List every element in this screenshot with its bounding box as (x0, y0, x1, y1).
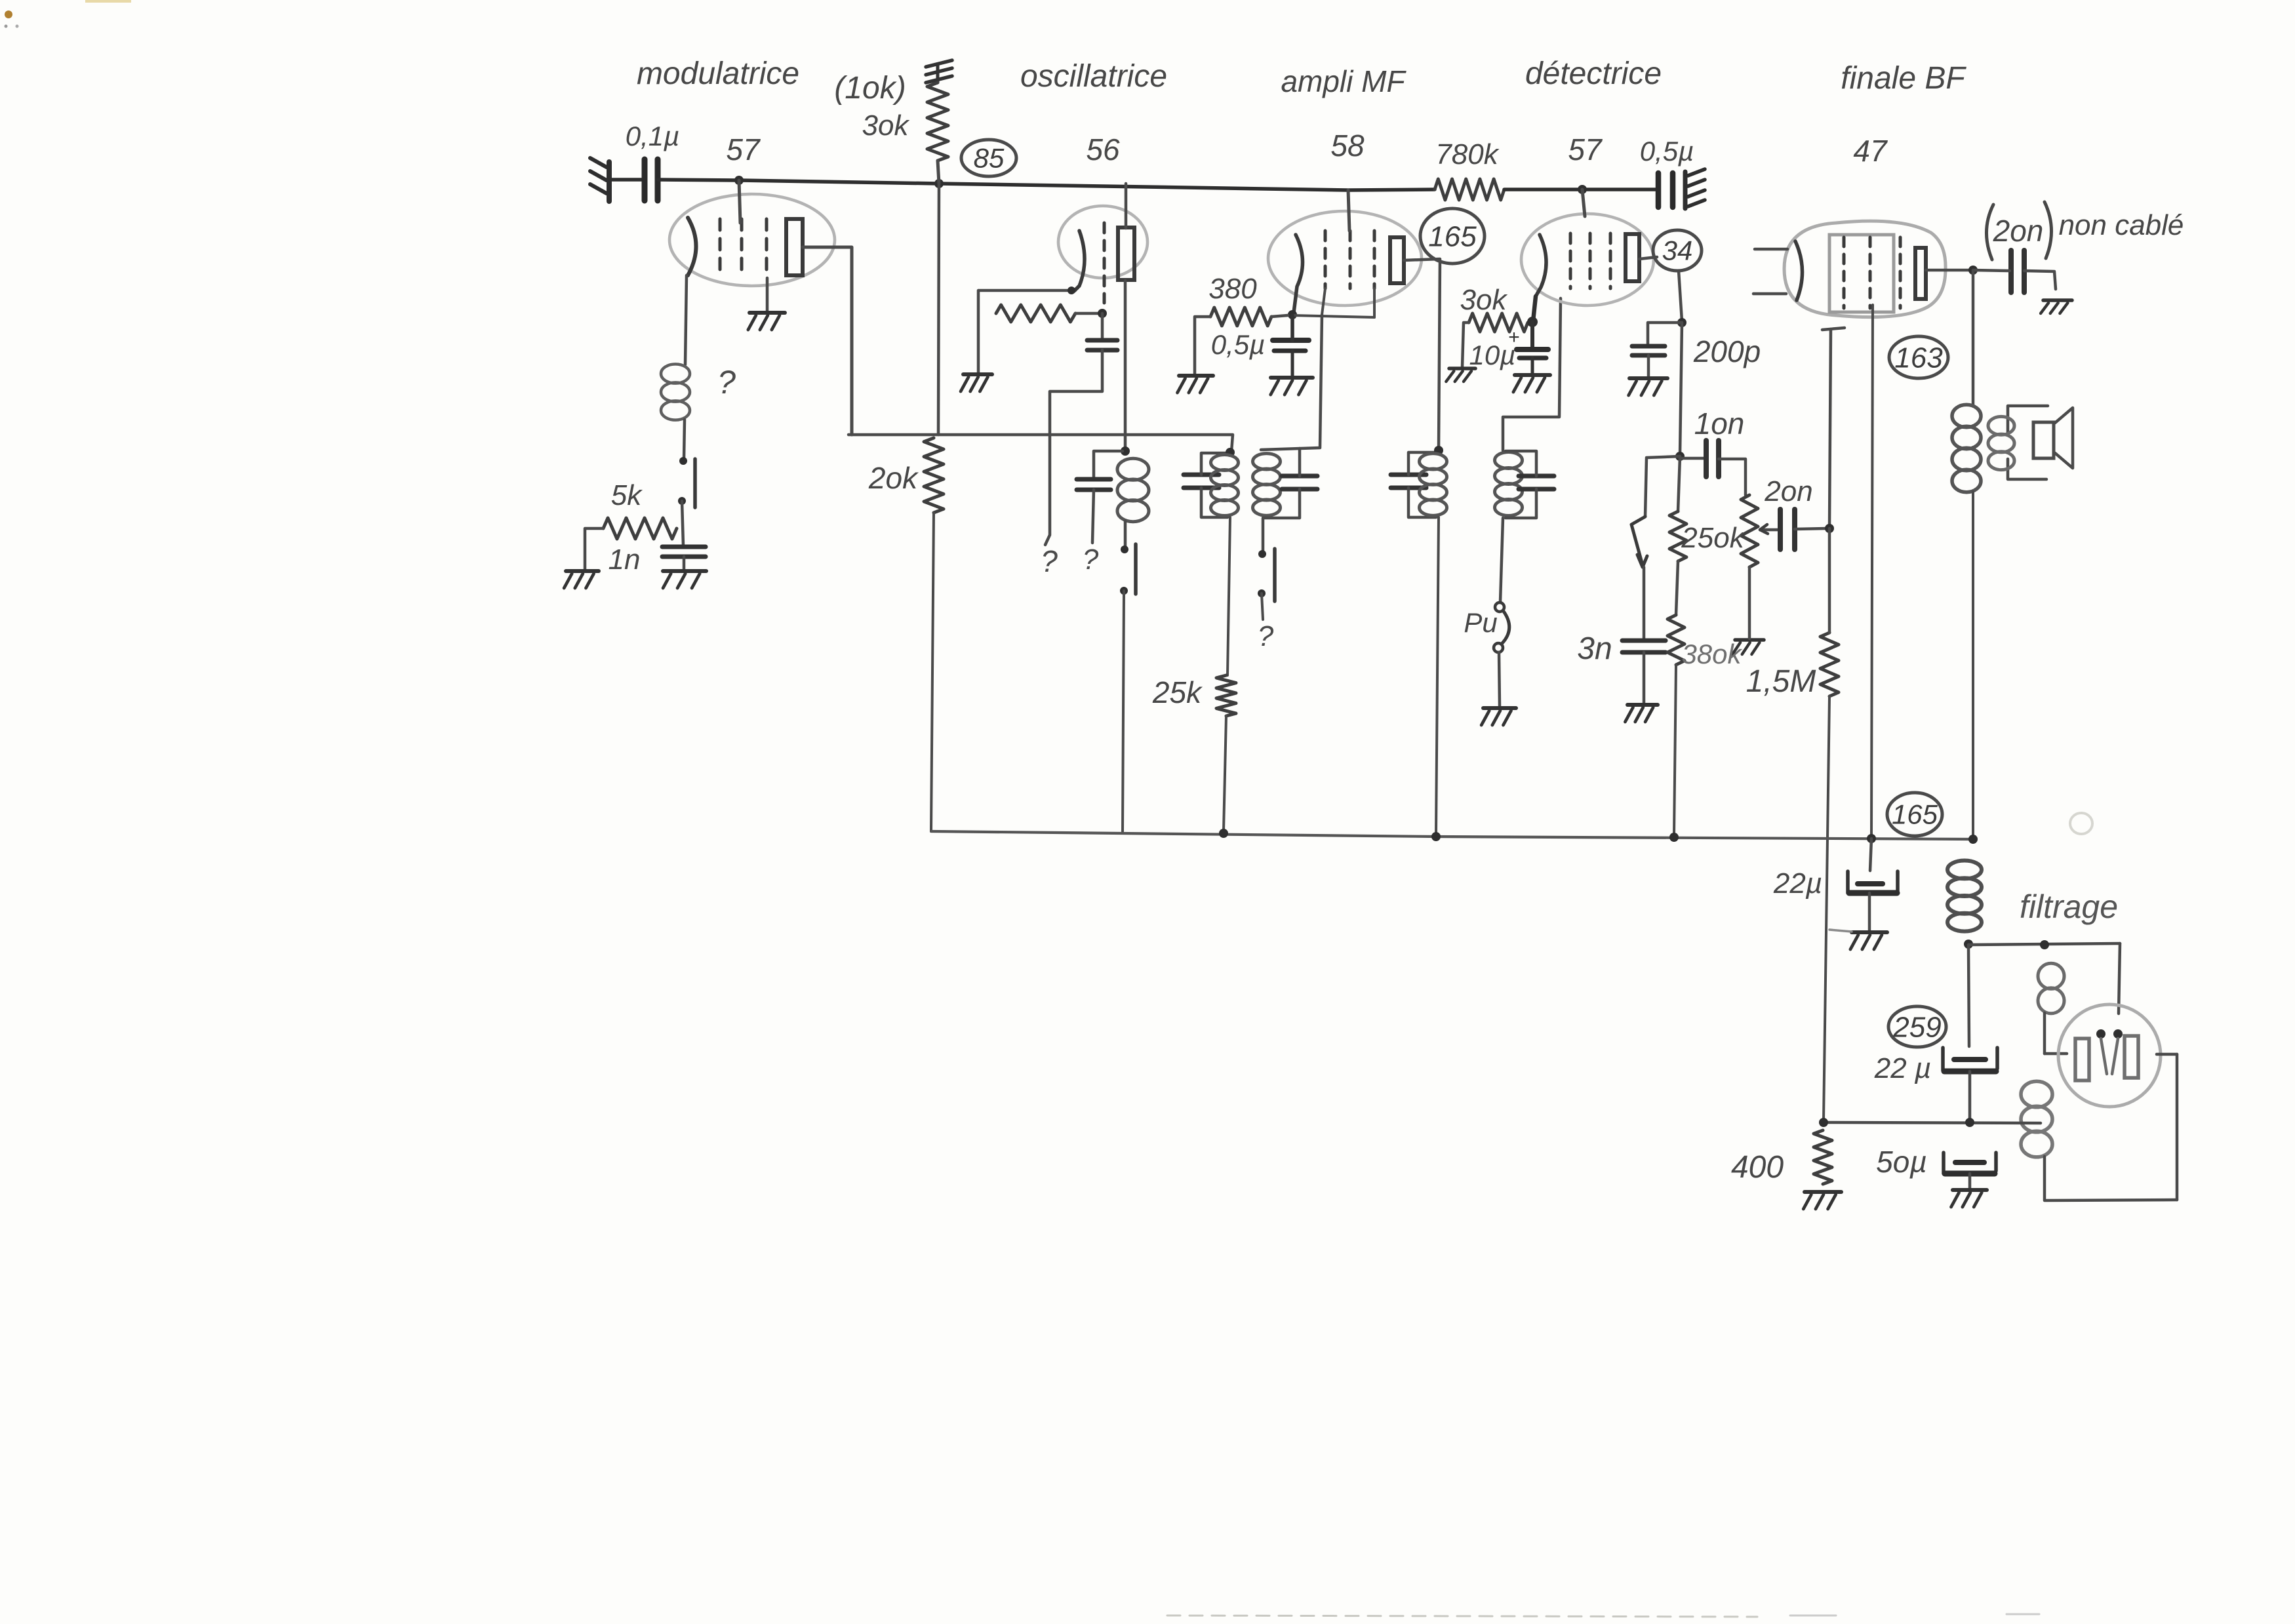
capacitor C_0,5u cath (1273, 340, 1309, 351)
node 30k (934, 179, 944, 188)
ground 50u (1951, 1190, 1987, 1207)
svg-text:25k: 25k (1152, 675, 1203, 709)
wire pot left top (1678, 456, 1680, 511)
label 38ok (1681, 639, 1742, 669)
V4 grid1 (1569, 233, 1572, 288)
wire 50u down (1968, 1174, 1972, 1188)
svg-text:22 µ: 22 µ (1874, 1052, 1932, 1084)
V2 grid (1103, 223, 1106, 303)
svg-text:3ok: 3ok (862, 109, 910, 142)
wire out pri down (1972, 492, 1974, 837)
wire tank cap tail (1092, 490, 1094, 543)
tube V6 rectifier 259 (2058, 1004, 2161, 1107)
node bus mf2 (1431, 832, 1441, 841)
label 47 (1853, 134, 1888, 168)
ground top of 30k (926, 60, 952, 83)
label ampli MF (1281, 64, 1407, 98)
wire mf2 pri down (1436, 517, 1439, 834)
node switch top (679, 457, 687, 465)
wire gridleak jog (1045, 350, 1102, 545)
resistor R_780k (1435, 179, 1504, 200)
capacitor C_mf2 right (1519, 476, 1554, 489)
label 25k (1152, 675, 1203, 709)
wire switch to 3n (1643, 567, 1646, 639)
svg-text:1,5M: 1,5M (1746, 664, 1816, 699)
circled 165 anode (1420, 208, 1485, 264)
label 200p (1693, 334, 1761, 368)
wire rect plate left (2045, 1052, 2067, 1056)
label 20k (868, 461, 919, 495)
wire mf1 sec to switch (1262, 518, 1265, 553)
ground pu (1481, 708, 1516, 725)
speaker cone (2055, 408, 2073, 468)
wire 47grid below bus (1870, 839, 1871, 871)
node 2on (1825, 524, 1834, 533)
wire top line right (1504, 188, 1657, 191)
label ? tank osc (1083, 544, 1099, 576)
label 57 mod (726, 132, 761, 167)
inductor L_ht winding (2021, 1081, 2052, 1157)
wire 200p ground (1647, 355, 1650, 376)
label 10u (1469, 340, 1516, 370)
V5 grid1 (1843, 237, 1846, 308)
V1 grid1 (719, 219, 722, 278)
wire 22u2 down (1968, 1071, 1972, 1121)
V5 filament stubs (1753, 249, 1787, 294)
label 56 (1086, 132, 1120, 167)
ground 1n (663, 571, 706, 588)
svg-text:5k: 5k (611, 479, 643, 511)
tube V3 58 ampli MF (1268, 211, 1422, 306)
label ? mf1 (1258, 620, 1274, 652)
label 25ok (1681, 522, 1745, 554)
svg-text:57: 57 (726, 132, 761, 167)
V6 plate right (2125, 1036, 2138, 1078)
svg-text:(1ok): (1ok) (834, 71, 906, 106)
node bus 47grid (1867, 834, 1876, 843)
svg-text:0,1µ: 0,1µ (626, 121, 680, 151)
svg-text:1n: 1n (609, 544, 641, 576)
inductor L_mf1 sec (1253, 454, 1281, 516)
scan artifact bottom (1167, 1614, 2039, 1617)
wire ht right v (2176, 1054, 2179, 1200)
ground 5k (564, 571, 599, 588)
node rect coil (2040, 940, 2049, 949)
svg-text:oscillatrice: oscillatrice (1020, 59, 1167, 94)
wire rect right v (2119, 943, 2120, 1014)
svg-text:200p: 200p (1693, 334, 1761, 368)
antenna input (590, 158, 609, 201)
svg-text:2on: 2on (1993, 214, 2044, 248)
resistor R_5k (603, 518, 677, 539)
label oscillatrice (1020, 59, 1167, 94)
wire 200k bracket (977, 290, 980, 372)
label 22u 1 (1773, 867, 1822, 900)
ground 0,5u cath (1271, 378, 1313, 395)
V6 filament dots (2096, 1029, 2123, 1039)
svg-text:400: 400 (1731, 1150, 1784, 1185)
wire 380 to node (1271, 315, 1288, 317)
node osc sw top (1121, 545, 1128, 553)
wire bus avc (931, 831, 1973, 839)
V2 cathode (1074, 231, 1085, 291)
switch det arrow (1631, 517, 1647, 567)
wire V1 screen (766, 278, 769, 311)
node 47 anode (1968, 266, 1978, 275)
label 400 (1731, 1150, 1784, 1185)
inductor L_choke filtrage (1947, 861, 1982, 932)
svg-text:2on: 2on (1764, 475, 1812, 507)
wire ht left bottom (2043, 1157, 2046, 1200)
inductor L_mf2 pri (1420, 454, 1447, 516)
capacitor C_grid 56 (1087, 340, 1117, 350)
wire V3 cath cap (1290, 315, 1294, 340)
node bus 38ok (1669, 833, 1679, 842)
resistor R_30k det (1469, 313, 1528, 332)
svg-text:22µ: 22µ (1773, 867, 1822, 900)
svg-text:3n: 3n (1577, 631, 1612, 666)
wire antenna to C1 (610, 178, 644, 182)
node osc sw bottom (1120, 587, 1128, 595)
ground after 0,5u (1685, 169, 1705, 208)
wire 30k det bracket (1462, 323, 1469, 367)
wire tank cap bracket (1094, 451, 1123, 478)
ground 200p (1629, 378, 1667, 395)
wire mf2 lcap top (1408, 452, 1436, 475)
wire rect plate right (2157, 1053, 2177, 1056)
capacitor C_50u (1944, 1153, 1996, 1174)
resistor R_25k (1216, 675, 1236, 716)
wire V2 cathode to 200k (979, 287, 1075, 294)
faint erased circle (2070, 813, 2092, 834)
wire 200p bracket (1648, 323, 1682, 345)
wire 25ok-38ok (1676, 561, 1678, 615)
wire pu to ground (1499, 652, 1500, 706)
svg-text:non cablé: non cablé (2059, 209, 2184, 241)
wire V4 anode out (1639, 257, 1657, 259)
wire 200k to grid node (1075, 312, 1099, 315)
wire 5k left bracket (585, 528, 603, 570)
label 1,5M (1746, 664, 1816, 699)
svg-text:47: 47 (1853, 134, 1888, 168)
label detectrice (1525, 56, 1662, 91)
label 780k (1435, 138, 1499, 170)
label 2on (1764, 475, 1812, 507)
svg-text:25ok: 25ok (1681, 522, 1745, 554)
wire anode node down (1680, 323, 1682, 455)
label 1on (1694, 406, 1745, 441)
capacitor C_22u 1 (1848, 871, 1898, 893)
node mf1 sw bottom (1258, 589, 1266, 597)
speaker bracket (2008, 406, 2048, 479)
label 5k (611, 479, 643, 511)
wire top line (658, 180, 1435, 190)
node grid V4 (1578, 185, 1587, 194)
svg-text:85: 85 (974, 143, 1005, 174)
paper stain (5, 0, 132, 28)
wire choke out h (1968, 943, 2120, 945)
svg-text:56: 56 (1086, 132, 1120, 167)
ground 20n (2041, 300, 2072, 313)
wire 22u1 ground (1868, 893, 1871, 930)
wire mf2 sec grid (1503, 298, 1561, 450)
svg-text:165: 165 (1428, 220, 1477, 252)
capacitor C_1n (662, 547, 706, 557)
V1 anode (786, 219, 803, 275)
circled 163 (1889, 336, 1948, 378)
capacitor C_2on (1780, 509, 1795, 549)
wire 30k to line (938, 161, 939, 184)
capacitor C_3n (1622, 641, 1666, 652)
wire choke to 22u2 (1968, 945, 1969, 1046)
svg-text:finale BF: finale BF (1841, 61, 1966, 96)
switch bar mod (693, 459, 697, 507)
V5 grid2 (1869, 237, 1872, 308)
wire V3 grid1 down (1322, 288, 1325, 315)
capacitor C_22u 2 (1943, 1048, 1997, 1071)
wire 1,5M bottom (1824, 696, 1829, 1121)
node tank osc top (1121, 446, 1130, 456)
resistor R_30k top (927, 83, 948, 161)
V1 cathode (688, 218, 696, 275)
label ? V1 screen (717, 364, 736, 401)
capacitor C_1on (1706, 441, 1719, 477)
resistor R_pot right (1741, 495, 1758, 567)
V3 grid2 (1349, 231, 1352, 288)
wire 1,5M top (1828, 528, 1831, 633)
wire mf1 lcap bottom (1201, 488, 1227, 517)
label ? osc mid (0, 0, 1, 1)
resistor R_20k (924, 438, 944, 513)
node mf1 sw top (1258, 550, 1266, 558)
wire V1 cathode down (685, 275, 687, 365)
wire to 1on (1680, 457, 1705, 460)
wire V4 grid top (1582, 189, 1585, 216)
wire V4 cath to 10u (1530, 322, 1534, 348)
wire mf1 pri down (1227, 517, 1230, 675)
wire 0,5u to ground (1291, 351, 1294, 376)
svg-text:5oµ: 5oµ (1876, 1145, 1927, 1179)
V3 cathode (1294, 235, 1303, 313)
wire pot right gnd (1748, 567, 1751, 639)
label 30k top (862, 109, 910, 142)
node det out (1675, 452, 1685, 461)
capacitor C_mf1 left (1184, 475, 1219, 488)
svg-text:détectrice: détectrice (1525, 56, 1662, 91)
resistor R_1,5M (1820, 633, 1839, 696)
resistor R_380 (1210, 307, 1271, 326)
wire osc to bus (1123, 591, 1124, 831)
svg-text:?: ? (1041, 544, 1058, 578)
inductor L_out sec (1988, 416, 2014, 469)
node bus2 400 (1819, 1118, 1828, 1127)
label 50u (1876, 1145, 1927, 1179)
label (2on) nc (1986, 202, 2051, 260)
svg-text:58: 58 (1330, 129, 1365, 163)
V5 inner box (1829, 235, 1894, 312)
V1 grid3 (765, 219, 768, 278)
wire osc coil to switch (1124, 521, 1127, 548)
wire V5 grid down (1871, 305, 1873, 835)
wire mf2 lcap bottom (1408, 488, 1436, 517)
wire V1 grid cap (739, 180, 740, 223)
svg-text:57: 57 (1568, 132, 1603, 167)
wire V3 anode out (1404, 259, 1440, 450)
ground 400 (1803, 1192, 1841, 1209)
V1 grid2 (740, 219, 744, 278)
svg-text:259: 259 (1892, 1011, 1941, 1043)
wire 47 anode down (1972, 270, 1975, 405)
V2 anode (1118, 228, 1134, 280)
wire V2 anode line top (1125, 184, 1128, 228)
svg-text:ampli MF: ampli MF (1281, 64, 1407, 98)
wire det switch bracket (1645, 456, 1680, 517)
label filtrage (2020, 888, 2118, 925)
svg-text:2ok: 2ok (868, 461, 919, 495)
V4 grid2 (1589, 233, 1592, 288)
node V2 grid (1098, 309, 1107, 318)
tube V2 56 oscillatrice (1058, 206, 1147, 278)
ground 200k (961, 374, 992, 391)
wire 380 bracket (1195, 317, 1210, 374)
V3 grid3 (1373, 231, 1376, 288)
wire 1,5M to gnd jog (1829, 930, 1852, 932)
speaker frame (2033, 422, 2054, 458)
wire mf1 rcap bottom (1264, 489, 1300, 518)
label 0,5u cath (1211, 329, 1266, 360)
wire mf2 rcap bottom (1506, 489, 1536, 518)
label 1n (609, 544, 641, 576)
ground 22u1 (1850, 932, 1887, 949)
ground pot right (1732, 640, 1764, 654)
wire V3 grid top (1348, 190, 1349, 231)
resistor R_25ok (1669, 511, 1686, 561)
V4 anode (1626, 234, 1639, 281)
svg-text:165: 165 (1892, 799, 1938, 830)
wire mf1 lcap top (1201, 453, 1227, 475)
svg-text:Pu: Pu (1464, 607, 1497, 638)
wire 38ok to bus (1674, 665, 1676, 835)
node bus choke (1968, 835, 1978, 844)
V5 cathode (1795, 241, 1803, 300)
svg-text:163: 163 (1894, 342, 1943, 374)
tube V5 47 finale BF (1784, 221, 1946, 317)
capacitor C_tank osc (1077, 479, 1111, 490)
wire mf1 sec top (1261, 315, 1322, 450)
wire V1 anode out (803, 247, 852, 435)
svg-text:34: 34 (1662, 235, 1693, 266)
svg-text:3ok: 3ok (1460, 284, 1508, 316)
switch bar osc (1134, 544, 1138, 594)
label 0,5u (1640, 136, 1694, 167)
inductor L_rect small (2038, 963, 2064, 1013)
wire 2on node up (1829, 329, 1831, 528)
wire 47 cath tail (1822, 328, 1845, 330)
wire 20n tail (2024, 271, 2056, 289)
svg-text:modulatrice: modulatrice (637, 56, 799, 91)
inductor L_tank osc (1117, 458, 1149, 521)
pickup pu jack (1494, 603, 1509, 652)
capacitor C_200p (1632, 346, 1665, 355)
circled 85 (961, 140, 1016, 176)
ground 30k det (1446, 368, 1475, 382)
capacitor C_mf2 left (1391, 475, 1426, 488)
wire L1 to switch (684, 420, 685, 460)
wire 2on to grid line (1795, 528, 1827, 529)
label modulatrice (637, 56, 799, 91)
V3 grid1 (1324, 231, 1327, 288)
resistor R_400 (1814, 1130, 1832, 1184)
tube V1 57 modulatrice (669, 194, 835, 286)
svg-text:?: ? (1258, 620, 1274, 652)
V4 cathode (1533, 235, 1546, 321)
resistor R_38ok (1667, 615, 1685, 665)
label finale BF (1841, 61, 1966, 96)
ground 380 (1178, 376, 1213, 393)
resistor R_200k (996, 305, 1075, 322)
tube V4 57 detectrice (1521, 214, 1654, 306)
wire rect left v (2043, 1013, 2046, 1054)
wire 20k down (931, 513, 934, 831)
label Pu (1464, 607, 1497, 638)
V4 grid3 (1609, 233, 1612, 288)
V3 anode (1390, 237, 1404, 283)
label non cable (2059, 209, 2184, 241)
wire mf1 rcap top (1298, 448, 1302, 476)
wire 1on to pot (1719, 459, 1746, 495)
node bus2 50u (1965, 1118, 1974, 1127)
capacitor C_20n nc (2011, 250, 2024, 292)
node V4 cathode (1527, 317, 1538, 327)
wire 25k to bus (1224, 716, 1226, 831)
node V3 cathode (1288, 310, 1297, 319)
capacitor C_0,5u out (1658, 173, 1673, 207)
label 58 (1330, 129, 1365, 163)
inductor L1 cathode coil (661, 364, 690, 420)
capacitor C1 0,1u (645, 159, 658, 201)
wire mf2 sec down (1500, 518, 1503, 602)
label 3n (1577, 631, 1612, 666)
wire cath-screen link (1292, 315, 1374, 317)
wire V3 screen down (1373, 288, 1376, 317)
circled 259 (1888, 1006, 1946, 1047)
label (1ok) (834, 71, 906, 106)
ground 3n (1625, 705, 1658, 722)
wire wiper to 2on (1760, 525, 1779, 534)
wire 3n ground (1643, 652, 1646, 703)
label 57 det (1568, 132, 1603, 167)
wire V2 anode line bottom (1124, 281, 1127, 450)
svg-text:10µ: 10µ (1469, 340, 1516, 370)
svg-text:?: ? (717, 364, 736, 401)
svg-text:780k: 780k (1435, 138, 1499, 170)
V6 plate left (2075, 1039, 2089, 1080)
wire switch to 5k (682, 501, 683, 546)
svg-text:380: 380 (1208, 273, 1257, 305)
node mf2 pri top (1434, 446, 1443, 455)
wire grid node down (1101, 313, 1104, 339)
wire 30k line down (938, 184, 939, 435)
ground V1 screen (748, 313, 785, 330)
svg-text:1on: 1on (1694, 406, 1745, 441)
node choke out (1964, 940, 1973, 949)
wire ht bottom (2045, 1200, 2177, 1200)
wire V5 anode out (1926, 269, 1970, 272)
inductor L_out pri (1952, 405, 1981, 492)
switch bar mf1 (1273, 549, 1277, 601)
label ? gridleak (1041, 544, 1058, 578)
ground 10u (1513, 375, 1550, 392)
